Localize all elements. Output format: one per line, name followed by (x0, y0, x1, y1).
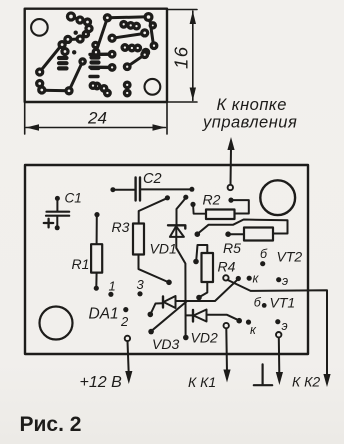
wire to common with arrow (278, 338, 281, 375)
dimension line 16 (192, 11, 194, 101)
transistor VT1 pins (246, 303, 281, 325)
dimension extension lines bottom (24) (25, 103, 167, 134)
wire VD3 anode diagonal (176, 279, 238, 301)
transistor VT2 pins (247, 261, 282, 282)
svg-text:C2: C2 (143, 171, 162, 187)
svg-text:R3: R3 (112, 219, 130, 235)
ground symbol (254, 364, 272, 385)
main board outline (25, 165, 308, 354)
svg-text:К кнопке: К кнопке (217, 96, 287, 114)
svg-text:VD3: VD3 (152, 336, 179, 352)
svg-text:б: б (254, 296, 262, 310)
dimension extension lines right (16) (168, 10, 197, 103)
PCB trace: top-left cluster links (62, 17, 89, 52)
svg-text:VD1: VD1 (150, 241, 177, 257)
wire loop from R5 right side (195, 220, 288, 238)
svg-text:К К2: К К2 (292, 374, 320, 390)
PCB pads (donuts) (37, 13, 157, 96)
node C (R2 left) (190, 202, 195, 207)
svg-text:DA1: DA1 (89, 306, 119, 323)
resistor R4 (193, 245, 213, 300)
terminal ring +12V (125, 336, 130, 341)
svg-text:Рис. 2: Рис. 2 (20, 413, 82, 436)
wire +12V with arrow (128, 341, 129, 373)
PCB trace: right vertical (150, 17, 154, 46)
PCB IC dash pads column 1 (59, 58, 67, 68)
svg-text:R1: R1 (72, 256, 90, 272)
mounting hole bottom-left (40, 307, 73, 340)
pin k VT1 (246, 320, 251, 325)
svg-text:R2: R2 (203, 192, 221, 208)
PCB trace: bottom-left pair link (40, 84, 108, 94)
PCB trace: diag to pad (127, 55, 145, 67)
thyristor/diode VD3 (148, 296, 176, 317)
pin b VT1 (262, 303, 267, 308)
PCB IC dash pads column 2 (92, 58, 99, 69)
svg-text:э: э (282, 274, 288, 288)
diode VD1 (zener) (168, 199, 189, 341)
svg-text:управления: управления (202, 114, 297, 132)
node VD3 anode wire end (236, 276, 241, 281)
PCB trace: bottom horizontal (42, 89, 69, 93)
PCB trace: long diagonal bottom-left (40, 45, 62, 73)
svg-text:б: б (260, 247, 268, 261)
svg-text:э: э (282, 319, 288, 333)
node B (VD1 top) (183, 195, 188, 200)
wire to control button with up arrow (230, 148, 233, 185)
pin k VT2 (247, 276, 252, 281)
capacitor C1 (44, 196, 69, 230)
terminal ring К К1 (224, 323, 229, 328)
terminal ring: control button (228, 185, 233, 190)
svg-text:К К1: К К1 (188, 374, 216, 390)
resistor R2 (193, 198, 249, 220)
svg-text:VT2: VT2 (277, 249, 303, 265)
relay hole (big circle top right) (260, 180, 295, 215)
PCB trace: left stub rows (90, 54, 112, 76)
PCB trace: diagonal up-right from bottom pad (69, 62, 83, 91)
dimension line 24 (26, 127, 166, 129)
svg-text:R5: R5 (223, 240, 241, 256)
PCB small filled dots (74, 31, 78, 35)
PCB copper-side board outline (25, 9, 167, 102)
svg-text:VT1: VT1 (270, 295, 296, 311)
PCB mounting hole top-left (31, 19, 48, 36)
PCB trace: diagonal left-down from top pad (96, 18, 107, 52)
svg-text:R4: R4 (218, 259, 236, 275)
svg-text:+12 В: +12 В (80, 374, 123, 391)
PCB mounting hole bottom-right (145, 79, 161, 95)
PCB trace: mid cluster horizontal (124, 24, 137, 26)
svg-text:24: 24 (87, 109, 107, 128)
terminal ring emitter/ground (276, 332, 281, 337)
resistor R1 (91, 212, 102, 291)
node A (junction under C2 right) (165, 195, 170, 200)
pin e VT2 (276, 277, 281, 282)
pin b VT2 (260, 261, 265, 266)
svg-text:3: 3 (137, 277, 145, 292)
wire К К2 (228, 280, 328, 377)
svg-text:1: 1 (109, 279, 116, 294)
terminal ring mid (to K K2 wire) (223, 275, 228, 280)
svg-text:VD2: VD2 (191, 330, 218, 346)
svg-text:16: 16 (171, 45, 192, 69)
resistor R3 (133, 198, 172, 285)
wire К К1 with arrow (225, 328, 228, 372)
PCB trace: lower mid horizontal (125, 46, 138, 50)
PCB trace: mid horizontal (112, 34, 144, 39)
svg-text:2: 2 (120, 314, 129, 329)
diode VD2 (186, 310, 242, 324)
PCB trace: top horizontal (107, 17, 148, 18)
resistor R5 (225, 228, 273, 241)
pin e VT1 (275, 319, 280, 324)
capacitor C2 (110, 178, 194, 201)
svg-text:C1: C1 (65, 191, 82, 206)
long diagonal wire (lower left) (148, 329, 154, 335)
DA1 pin 2 (123, 307, 128, 312)
